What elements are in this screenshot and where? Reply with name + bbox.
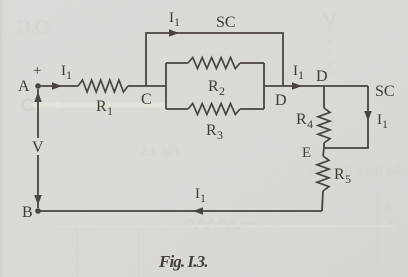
svg-text:+: + <box>33 63 41 79</box>
svg-text:R: R <box>96 98 107 115</box>
svg-text:O.C: O.C <box>18 17 49 38</box>
svg-text:1: 1 <box>174 15 180 29</box>
svg-text:4: 4 <box>307 117 313 131</box>
svg-text:SC: SC <box>216 14 236 31</box>
svg-text:1: 1 <box>200 191 206 205</box>
svg-text:2: 2 <box>219 84 225 98</box>
svg-text:A: A <box>384 201 393 215</box>
svg-text:A: A <box>18 78 30 95</box>
svg-text:SC: SC <box>375 83 395 100</box>
svg-text:R: R <box>334 166 345 183</box>
svg-text:R: R <box>206 122 217 139</box>
svg-text:1: 1 <box>382 117 388 131</box>
svg-text:D: D <box>275 92 287 109</box>
svg-text:5: 5 <box>345 172 351 186</box>
svg-text:1: 1 <box>66 68 72 82</box>
svg-text:C: C <box>141 91 152 108</box>
svg-text:R: R <box>208 78 219 95</box>
svg-text:D: D <box>316 68 328 85</box>
svg-text:E: E <box>302 145 311 161</box>
svg-text:Fig. 1.5: Fig. 1.5 <box>142 144 181 158</box>
svg-text:3: 3 <box>217 128 223 142</box>
svg-text:1: 1 <box>107 104 113 118</box>
svg-text:V: V <box>32 139 44 156</box>
svg-text:1: 1 <box>298 68 304 82</box>
svg-text:Fig. I.3.: Fig. I.3. <box>158 252 208 271</box>
svg-text:R: R <box>296 111 307 128</box>
svg-text:B: B <box>22 204 33 221</box>
